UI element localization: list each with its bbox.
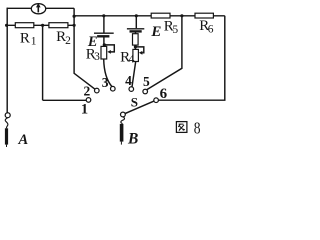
- svg-text:1: 1: [31, 36, 37, 48]
- svg-text:6: 6: [208, 23, 214, 35]
- svg-text:R: R: [20, 30, 30, 46]
- svg-text:4: 4: [129, 54, 135, 66]
- svg-text:2: 2: [84, 84, 91, 99]
- svg-text:5: 5: [172, 24, 178, 36]
- svg-text:E: E: [87, 34, 98, 50]
- svg-text:A: A: [18, 132, 29, 148]
- svg-text:6: 6: [160, 86, 168, 102]
- svg-text:S: S: [131, 95, 138, 110]
- svg-text:2: 2: [65, 35, 71, 47]
- svg-text:4: 4: [125, 73, 132, 88]
- svg-text:3: 3: [102, 75, 109, 90]
- svg-text:8: 8: [194, 119, 201, 138]
- svg-text:3: 3: [94, 51, 100, 63]
- svg-text:E: E: [150, 24, 161, 40]
- svg-text:1: 1: [81, 102, 88, 118]
- svg-text:5: 5: [143, 74, 150, 89]
- svg-text:B: B: [127, 131, 138, 148]
